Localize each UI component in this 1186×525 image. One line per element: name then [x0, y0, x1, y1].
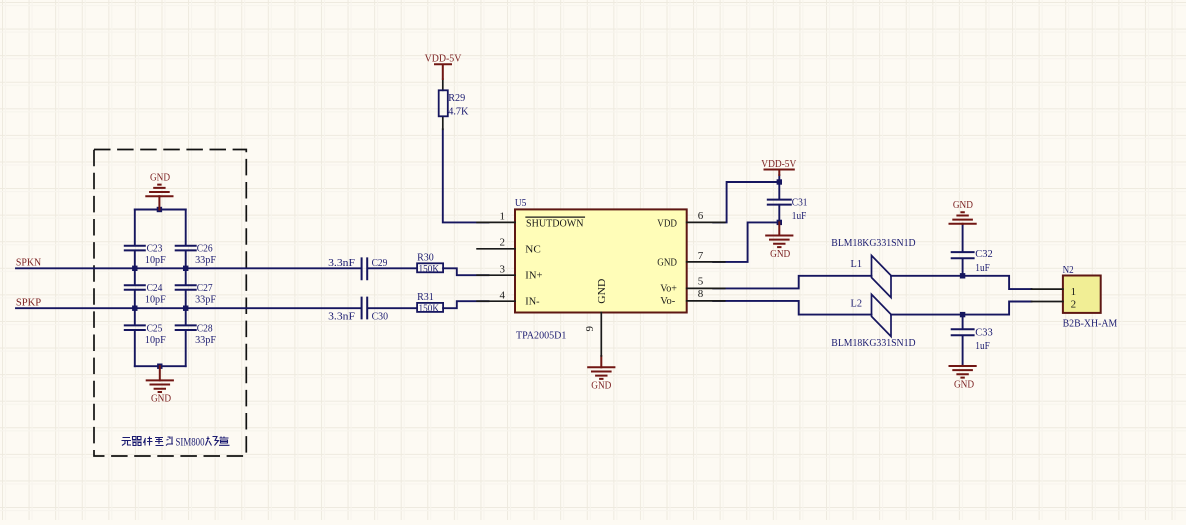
svg-text:33pF: 33pF: [195, 254, 216, 266]
wire L2 to N2 pin 2: [891, 302, 1032, 315]
wire L1 to N2 pin 1: [891, 276, 1032, 289]
svg-text:1: 1: [1071, 286, 1077, 298]
svg-text:6: 6: [698, 210, 704, 222]
capacitor C27: [176, 285, 196, 290]
ferrite bead L1: [872, 256, 892, 298]
svg-text:10pF: 10pF: [145, 294, 166, 306]
pin 2 NC: [477, 248, 515, 250]
svg-text:GND: GND: [151, 394, 171, 405]
svg-text:Vo+: Vo+: [660, 283, 677, 295]
svg-text:C24: C24: [147, 282, 163, 294]
pin 3 IN+: [477, 274, 515, 276]
pin 4 IN-: [477, 300, 515, 302]
svg-text:C28: C28: [197, 322, 213, 334]
svg-text:GND: GND: [591, 381, 611, 392]
svg-text:10pF: 10pF: [145, 334, 166, 346]
wire SPKP row: [16, 307, 417, 309]
svg-text:33pF: 33pF: [195, 294, 216, 306]
svg-text:8: 8: [698, 288, 704, 300]
svg-text:C27: C27: [197, 282, 213, 294]
svg-text:BLM18KG331SN1D: BLM18KG331SN1D: [831, 337, 915, 349]
svg-text:1uF: 1uF: [975, 262, 990, 274]
ground (above C32, inverted): [962, 223, 964, 225]
svg-text:Vo-: Vo-: [660, 295, 675, 307]
pin 5 Vo+: [687, 287, 725, 289]
capacitor C24: [125, 285, 145, 290]
svg-text:3.3nF: 3.3nF: [328, 311, 355, 323]
pin 1 SHUTDOWN: [477, 221, 515, 223]
svg-text:N2: N2: [1063, 264, 1074, 276]
wire IC pin6 to VDD junction: [713, 182, 779, 222]
N2 pin 2: [1032, 301, 1063, 303]
pin 6 VDD: [687, 221, 725, 223]
svg-text:1uF: 1uF: [975, 340, 990, 352]
capacitor C30: [362, 298, 368, 319]
ground (top of cap block, inverted): [158, 196, 160, 209]
wire IC pin7 to C31 bottom junction: [713, 222, 779, 262]
svg-text:GND: GND: [657, 257, 677, 269]
svg-text:B2B-XH-AM: B2B-XH-AM: [1063, 317, 1118, 329]
wire R30 to IC pin 3: [443, 268, 488, 275]
op-amp/IC U5 TPA2005D1 body: [515, 209, 687, 312]
power port VDD-5V (right, C31): [765, 170, 794, 176]
svg-text:150K: 150K: [419, 303, 440, 314]
ground (below C31): [778, 222, 780, 235]
svg-text:GND: GND: [770, 249, 790, 260]
note text 元器件靠近SIM800放置 (CJK drawn as strokes): [122, 437, 174, 446]
svg-text:9: 9: [584, 326, 596, 332]
svg-text:R29: R29: [448, 92, 465, 104]
svg-text:C23: C23: [147, 243, 163, 255]
svg-text:1: 1: [500, 211, 506, 223]
N2 pin 1: [1032, 288, 1063, 290]
ground (bottom of cap block): [159, 366, 161, 380]
svg-text:3.3nF: 3.3nF: [328, 257, 355, 269]
ground (below C33): [962, 365, 964, 367]
svg-text:SPKP: SPKP: [16, 297, 41, 309]
svg-text:150K: 150K: [419, 264, 440, 275]
svg-text:1uF: 1uF: [792, 210, 807, 222]
capacitor C25: [125, 325, 145, 330]
svg-text:2: 2: [500, 237, 506, 249]
resistor R29: [439, 90, 448, 116]
svg-text:GND: GND: [150, 172, 170, 183]
svg-text:C29: C29: [372, 257, 388, 269]
wire cap-block top rail: [135, 209, 186, 211]
svg-text:L1: L1: [851, 258, 863, 270]
power port VDD-5V (top, R29): [435, 64, 451, 79]
wire C31 bottom to junction: [778, 205, 780, 223]
svg-text:C31: C31: [792, 197, 808, 209]
svg-text:10pF: 10pF: [145, 254, 166, 266]
wire right cap column: [185, 210, 187, 367]
wire cap-block bottom rail: [135, 365, 186, 367]
svg-text:SPKN: SPKN: [16, 257, 41, 269]
wire C33 stem: [962, 315, 964, 366]
resistor R30: [417, 263, 443, 272]
wire R29 to IC pin 1: [443, 129, 489, 222]
svg-text:C25: C25: [147, 322, 163, 334]
capacitor C29: [362, 258, 368, 279]
capacitor C33: [952, 329, 974, 335]
svg-text:C30: C30: [372, 311, 389, 323]
svg-text:2: 2: [1071, 299, 1077, 311]
resistor R31: [417, 303, 443, 312]
svg-text:7: 7: [698, 250, 704, 262]
pin 7 GND: [687, 261, 725, 263]
capacitor C31: [768, 200, 791, 205]
svg-text:C32: C32: [975, 248, 993, 260]
svg-text:GND: GND: [596, 279, 608, 304]
wire SPKN row: [16, 267, 417, 269]
wire IC pin5 to L1: [713, 276, 871, 289]
svg-text:GND: GND: [954, 379, 974, 390]
capacitor C32: [952, 252, 974, 258]
svg-text:3: 3: [500, 263, 506, 275]
dashed guidance box: [94, 150, 246, 457]
svg-text:SHUTDOWN: SHUTDOWN: [526, 217, 584, 229]
wire C32 stem: [962, 224, 964, 276]
wire VDD stem to C31 top: [778, 175, 780, 199]
svg-text:GND: GND: [953, 200, 973, 211]
ground (under IC pin 9): [600, 356, 602, 367]
pin 8 Vo-: [687, 300, 725, 302]
svg-text:4: 4: [500, 289, 506, 301]
svg-text:SIM800: SIM800: [176, 434, 205, 448]
svg-text:U5: U5: [515, 197, 527, 209]
svg-text:BLM18KG331SN1D: BLM18KG331SN1D: [831, 237, 915, 249]
svg-text:L2: L2: [851, 298, 863, 310]
ferrite bead L2: [872, 294, 892, 336]
wire R31 to IC pin 4: [443, 301, 488, 308]
capacitor C28: [176, 325, 196, 330]
svg-text:C33: C33: [975, 327, 993, 339]
svg-text:33pF: 33pF: [195, 334, 216, 346]
svg-text:R30: R30: [417, 251, 434, 263]
capacitor C23: [125, 246, 145, 251]
svg-text:IN-: IN-: [525, 296, 540, 308]
svg-text:5: 5: [698, 276, 704, 288]
wire IC pin8 to L2: [713, 301, 871, 315]
svg-text:C26: C26: [197, 243, 213, 255]
resistor R29 pin stubs: [442, 79, 444, 129]
svg-text:NC: NC: [525, 243, 541, 255]
svg-text:IN+: IN+: [525, 270, 542, 282]
svg-text:VDD-5V: VDD-5V: [761, 158, 796, 170]
connector N2 B2B-XH-AM body: [1063, 276, 1101, 313]
svg-text:R31: R31: [417, 291, 434, 303]
pin 9 GND (bottom): [600, 313, 602, 357]
svg-text:4.7K: 4.7K: [448, 105, 468, 117]
wire left cap column: [134, 210, 136, 367]
svg-text:VDD: VDD: [657, 217, 677, 229]
svg-text:VDD-5V: VDD-5V: [425, 53, 462, 65]
svg-text:TPA2005D1: TPA2005D1: [516, 329, 566, 341]
capacitor C26: [176, 246, 196, 251]
